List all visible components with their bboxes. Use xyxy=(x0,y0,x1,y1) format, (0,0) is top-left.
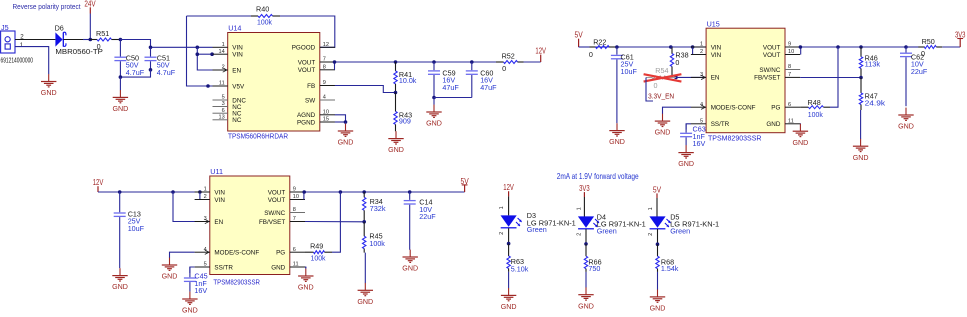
capacitor C61 xyxy=(611,47,638,123)
svg-text:GND: GND xyxy=(162,272,178,281)
wire 12V rail to U11 xyxy=(98,191,213,193)
svg-text:Green: Green xyxy=(597,227,617,236)
svg-text:8: 8 xyxy=(788,64,791,70)
svg-text:Green: Green xyxy=(670,227,690,236)
svg-text:TPSM82903SSR: TPSM82903SSR xyxy=(708,133,762,142)
wire to net 3.3V_EN xyxy=(646,78,653,102)
svg-text:V5V: V5V xyxy=(232,83,245,90)
DNP cross over R54 xyxy=(644,74,682,81)
LED D5 xyxy=(648,207,719,236)
ground xyxy=(113,77,129,113)
wire 3V3 to D4 anode xyxy=(583,197,585,217)
svg-text:GND: GND xyxy=(678,159,694,168)
svg-text:4.7uF: 4.7uF xyxy=(126,68,145,77)
ground xyxy=(298,267,314,292)
resistor R54 (DNP) xyxy=(646,66,676,90)
junction R51/C50/bus xyxy=(119,38,123,42)
svg-text:NC: NC xyxy=(232,117,242,124)
junction C62 top xyxy=(904,45,908,49)
ground xyxy=(182,292,198,315)
svg-text:GND: GND xyxy=(298,283,314,292)
junction R49 riser xyxy=(339,190,343,194)
wire SS/TR to C45 xyxy=(190,267,195,273)
junction C14 top xyxy=(408,190,412,194)
svg-text:15: 15 xyxy=(323,117,329,123)
svg-text:GND: GND xyxy=(609,137,625,146)
ground xyxy=(793,124,809,147)
ground xyxy=(655,114,671,137)
svg-text:PG: PG xyxy=(771,105,780,112)
ground xyxy=(388,131,404,154)
svg-text:VOUT: VOUT xyxy=(298,67,316,74)
svg-text:2: 2 xyxy=(648,233,654,236)
ground xyxy=(41,74,57,97)
svg-text:12V: 12V xyxy=(535,47,546,56)
junction pin14 drop xyxy=(196,52,200,56)
svg-text:12V: 12V xyxy=(93,178,104,187)
svg-text:6: 6 xyxy=(788,102,791,108)
wire bus to U14 VIN xyxy=(120,40,212,48)
svg-text:GND: GND xyxy=(271,264,285,271)
svg-text:PG: PG xyxy=(276,250,285,257)
svg-text:VIN: VIN xyxy=(711,44,722,51)
svg-text:0: 0 xyxy=(589,50,593,59)
capacitor C59 xyxy=(428,62,459,98)
svg-text:FB/VSET: FB/VSET xyxy=(754,75,780,82)
wire U15 VOUT bus xyxy=(800,46,925,48)
svg-text:1: 1 xyxy=(20,42,24,49)
power flag 12V xyxy=(93,178,104,192)
svg-text:1: 1 xyxy=(204,187,207,193)
svg-text:0: 0 xyxy=(97,42,101,51)
junction D5/R68 xyxy=(656,242,660,246)
svg-text:Green: Green xyxy=(527,225,547,234)
power flag 5V xyxy=(461,177,470,192)
svg-text:FB: FB xyxy=(307,83,315,90)
wire AGND/PGND to ground xyxy=(335,115,346,122)
svg-text:D6: D6 xyxy=(55,23,64,32)
svg-text:MODE/S-CONF: MODE/S-CONF xyxy=(214,250,259,257)
svg-text:GND: GND xyxy=(112,282,128,291)
wire VOUT pin10 riser xyxy=(800,47,802,55)
LED D3 xyxy=(499,206,576,235)
svg-text:R51: R51 xyxy=(96,29,109,38)
svg-text:U14: U14 xyxy=(228,24,241,33)
junction R34 top xyxy=(362,190,366,194)
svg-text:732k: 732k xyxy=(370,204,386,213)
resistor R51 xyxy=(90,29,120,51)
svg-text:13: 13 xyxy=(218,115,224,121)
svg-text:EN: EN xyxy=(711,75,720,82)
svg-text:VOUT: VOUT xyxy=(298,59,316,66)
svg-text:SW: SW xyxy=(305,97,315,104)
svg-text:10.0k: 10.0k xyxy=(399,76,417,85)
junction D3/R63 xyxy=(507,242,511,246)
wire J5 pin1 to ground xyxy=(15,47,49,75)
svg-text:8: 8 xyxy=(323,65,326,71)
svg-text:0: 0 xyxy=(654,81,658,90)
ground xyxy=(853,110,869,162)
wire EN drop xyxy=(173,192,213,222)
capacitor C63 xyxy=(680,124,706,148)
resistor R52 xyxy=(496,52,541,73)
svg-text:1: 1 xyxy=(222,42,225,48)
svg-text:12: 12 xyxy=(323,42,329,48)
power flag 3V3 xyxy=(955,30,966,47)
wire R48 riser to VOUT xyxy=(830,47,838,107)
svg-text:10uF: 10uF xyxy=(128,224,145,233)
svg-text:11: 11 xyxy=(219,81,225,87)
svg-text:R54: R54 xyxy=(655,66,668,75)
svg-text:10: 10 xyxy=(293,194,299,200)
ground xyxy=(338,122,354,147)
wire FB/VSET to divider xyxy=(800,77,861,79)
junction C60 top xyxy=(470,60,474,64)
power flag 12V xyxy=(535,47,546,63)
svg-text:5: 5 xyxy=(204,262,207,268)
ground xyxy=(357,253,373,306)
svg-text:7: 7 xyxy=(788,72,791,78)
junction C59 top xyxy=(432,60,436,64)
svg-text:5: 5 xyxy=(222,95,225,101)
svg-text:R49: R49 xyxy=(310,241,323,250)
wire MODE to ground xyxy=(663,107,692,114)
ground xyxy=(898,108,914,131)
wire C51/C50 bottoms xyxy=(120,70,150,77)
svg-text:7: 7 xyxy=(293,216,296,222)
junction AGND/PGND xyxy=(344,120,348,124)
svg-text:9: 9 xyxy=(323,80,326,86)
wire D5 cathode to R68 xyxy=(657,229,659,244)
wire U11 VOUT bus xyxy=(305,191,465,193)
junction R48 riser xyxy=(836,45,840,49)
wire SS/TR to C63 xyxy=(686,124,691,130)
wire 5V to D5 anode xyxy=(656,198,658,217)
resistor R49 xyxy=(305,241,332,262)
svg-text:TPSM560R6HRDAR: TPSM560R6HRDAR xyxy=(228,132,288,141)
wire D3 cathode to R63 xyxy=(508,228,510,243)
wire 12V to D3 anode xyxy=(508,196,510,215)
resistor R50 xyxy=(906,37,960,58)
resistor R34 xyxy=(363,192,387,222)
junction 24V/D6/R51 xyxy=(89,38,93,42)
svg-text:GND: GND xyxy=(793,138,809,147)
LED D4 xyxy=(577,207,646,236)
ground xyxy=(501,272,517,311)
svg-text:6: 6 xyxy=(293,247,296,253)
power flag 12V xyxy=(503,183,514,196)
svg-text:R52: R52 xyxy=(502,52,515,61)
wire 5V rail to U15 xyxy=(579,46,692,48)
svg-text:GND: GND xyxy=(113,104,129,113)
wire J5 pin2 to D6 xyxy=(15,39,55,41)
wire VOUT pin8 riser xyxy=(334,62,336,70)
ground xyxy=(112,268,128,291)
svg-text:2: 2 xyxy=(700,49,703,55)
diode D6 xyxy=(55,23,104,56)
svg-text:VOUT: VOUT xyxy=(763,52,781,59)
wire U11 GND pin to ground xyxy=(304,267,307,268)
svg-text:14: 14 xyxy=(218,49,224,55)
connector J5 xyxy=(1,23,34,64)
svg-text:3.3V_EN: 3.3V_EN xyxy=(648,91,674,100)
wire U15 GND pin to ground xyxy=(799,123,801,126)
svg-text:1.54k: 1.54k xyxy=(661,264,679,273)
junction R41/R43/FB xyxy=(394,91,398,95)
svg-text:0: 0 xyxy=(502,64,506,73)
svg-text:GND: GND xyxy=(578,301,594,310)
wire VOUT pin10 riser xyxy=(303,192,305,200)
junction EN drop xyxy=(171,190,175,194)
junction C51 bottom xyxy=(149,68,153,72)
svg-text:5V: 5V xyxy=(653,185,662,194)
resistor R45 xyxy=(363,222,386,253)
junction VIN pins xyxy=(198,190,202,194)
power flag 5V xyxy=(653,185,662,198)
svg-text:SS/TR: SS/TR xyxy=(214,264,233,271)
svg-text:GND: GND xyxy=(898,122,914,131)
svg-text:7: 7 xyxy=(323,57,326,63)
wire U14 VOUT bus xyxy=(335,61,496,63)
svg-text:GND: GND xyxy=(655,128,671,137)
svg-text:1: 1 xyxy=(499,206,505,209)
svg-text:GND: GND xyxy=(650,304,666,313)
svg-text:J5: J5 xyxy=(1,23,9,32)
svg-text:VIN: VIN xyxy=(214,189,225,196)
power flag 24V xyxy=(84,0,96,40)
svg-text:GND: GND xyxy=(182,306,198,315)
svg-text:4: 4 xyxy=(323,95,326,101)
wire VIN pin1/pin2 drop xyxy=(693,47,707,55)
junction R46/R47/FB xyxy=(859,76,863,80)
capacitor C51 xyxy=(145,47,176,77)
capacitor C45 xyxy=(184,267,208,295)
svg-text:9: 9 xyxy=(788,42,791,48)
svg-text:3V3: 3V3 xyxy=(579,184,590,193)
svg-text:VIN: VIN xyxy=(232,52,243,59)
svg-text:GND: GND xyxy=(402,264,418,273)
ground xyxy=(609,123,625,146)
svg-text:0: 0 xyxy=(921,49,925,58)
resistor R48 xyxy=(800,98,830,119)
svg-text:1: 1 xyxy=(648,207,654,210)
wire MODE to ground xyxy=(170,252,195,258)
svg-text:GND: GND xyxy=(766,121,780,128)
junction C13 top xyxy=(118,190,122,194)
junction R38 top xyxy=(669,45,673,49)
svg-text:5.10k: 5.10k xyxy=(511,264,529,273)
svg-text:SS/TR: SS/TR xyxy=(711,121,730,128)
svg-text:Reverse polarity protect: Reverse polarity protect xyxy=(13,2,82,11)
resistor R41 xyxy=(394,62,417,93)
junction R41 top xyxy=(394,60,398,64)
svg-text:EN: EN xyxy=(214,219,223,226)
svg-text:24.9k: 24.9k xyxy=(865,99,886,108)
svg-text:22uF: 22uF xyxy=(419,212,436,221)
junction D4/R66 xyxy=(584,242,588,246)
junction pin9/pin10 xyxy=(302,190,306,194)
junction VIN pin1 xyxy=(196,46,200,50)
wire D4 cathode to R66 xyxy=(585,229,587,244)
ground xyxy=(678,145,694,168)
resistor R66 xyxy=(584,244,601,273)
svg-text:10: 10 xyxy=(323,110,329,116)
svg-text:6: 6 xyxy=(222,108,225,114)
svg-text:GND: GND xyxy=(338,138,354,147)
svg-text:AGND: AGND xyxy=(297,112,316,119)
capacitor C50 xyxy=(114,40,144,78)
resistor R43 xyxy=(394,93,412,132)
capacitor C13 xyxy=(114,192,145,268)
svg-text:909: 909 xyxy=(399,116,411,125)
svg-text:SW/NC: SW/NC xyxy=(264,210,285,217)
svg-text:10uF: 10uF xyxy=(621,67,638,76)
svg-text:GND: GND xyxy=(501,302,517,311)
svg-text:U15: U15 xyxy=(707,19,720,28)
svg-text:MODE/S-CONF: MODE/S-CONF xyxy=(711,105,756,112)
capacitor C62 xyxy=(900,47,928,106)
svg-text:GND: GND xyxy=(357,297,373,306)
svg-text:2: 2 xyxy=(204,194,207,200)
svg-text:2: 2 xyxy=(577,233,583,236)
svg-text:100k: 100k xyxy=(808,110,823,119)
svg-text:8: 8 xyxy=(293,207,296,213)
svg-text:100k: 100k xyxy=(257,17,272,26)
junction pin9/pin10 xyxy=(799,45,803,49)
junction C61 top xyxy=(615,45,619,49)
svg-text:9: 9 xyxy=(293,187,296,193)
wire V5V to R40 left xyxy=(187,16,213,86)
svg-text:PGND: PGND xyxy=(297,119,316,126)
svg-text:VOUT: VOUT xyxy=(763,44,781,51)
resistor R46 xyxy=(859,47,880,78)
IC U11 xyxy=(195,167,305,286)
svg-text:11: 11 xyxy=(293,262,299,268)
ground xyxy=(650,272,666,313)
junction C50 bottom xyxy=(119,75,123,79)
svg-text:VOUT: VOUT xyxy=(268,197,286,204)
svg-text:10: 10 xyxy=(788,49,794,55)
svg-text:22uF: 22uF xyxy=(911,67,928,76)
wire R40 to PGOOD xyxy=(280,16,335,47)
wire D6 to R51 xyxy=(63,39,83,41)
junction EN/R38/R54 xyxy=(674,76,678,80)
ground xyxy=(578,272,594,310)
junction C59/C60 bottom xyxy=(432,96,436,100)
svg-text:3: 3 xyxy=(222,101,225,107)
capacitor C60 xyxy=(466,62,497,98)
junction VIN pins xyxy=(691,45,695,49)
junction R46 top xyxy=(859,45,863,49)
svg-text:1: 1 xyxy=(700,42,703,48)
wire FB/VSET to divider xyxy=(305,221,364,223)
svg-text:4.7uF: 4.7uF xyxy=(157,68,176,77)
resistor R22 xyxy=(579,38,617,59)
resistor R47 xyxy=(859,78,885,111)
svg-text:100k: 100k xyxy=(311,254,326,263)
ground xyxy=(162,258,178,281)
power flag 3V3 xyxy=(579,184,590,197)
svg-text:EN: EN xyxy=(232,67,241,74)
svg-text:5V: 5V xyxy=(575,31,584,40)
ground xyxy=(402,250,418,273)
svg-text:5: 5 xyxy=(700,119,703,125)
svg-text:113k: 113k xyxy=(865,59,881,68)
svg-text:100k: 100k xyxy=(369,239,385,248)
svg-text:SW/NC: SW/NC xyxy=(759,67,780,74)
resistor R38 xyxy=(670,47,688,77)
capacitor C14 xyxy=(404,192,437,250)
resistor R68 xyxy=(656,244,679,273)
svg-text:12V: 12V xyxy=(503,183,514,192)
svg-text:GND: GND xyxy=(853,153,869,162)
resistor R63 xyxy=(507,244,529,274)
wire FB to divider xyxy=(335,86,396,93)
svg-text:24V: 24V xyxy=(84,0,96,9)
svg-text:47uF: 47uF xyxy=(442,83,459,92)
wire EN xyxy=(676,76,706,78)
svg-text:16V: 16V xyxy=(693,139,706,148)
svg-text:GND: GND xyxy=(426,119,442,128)
svg-text:16V: 16V xyxy=(194,286,207,295)
svg-text:2mA at 1.9V forward voltage: 2mA at 1.9V forward voltage xyxy=(557,171,639,181)
wire R49 riser to VOUT xyxy=(332,192,340,252)
svg-text:11: 11 xyxy=(788,119,794,125)
svg-text:VIN: VIN xyxy=(214,197,225,204)
svg-text:47uF: 47uF xyxy=(480,83,497,92)
IC U14 xyxy=(213,24,336,141)
svg-text:GND: GND xyxy=(41,88,57,97)
wire R38 top jog xyxy=(671,46,672,48)
ground xyxy=(426,98,442,128)
svg-text:GND: GND xyxy=(388,145,404,154)
junction pin14 stub xyxy=(210,52,214,56)
svg-text:691214000000: 691214000000 xyxy=(1,56,34,65)
svg-text:TPSM82903SSR: TPSM82903SSR xyxy=(213,277,260,286)
svg-text:FB/VSET: FB/VSET xyxy=(259,219,285,226)
junction V5V stub xyxy=(206,84,210,88)
svg-text:R22: R22 xyxy=(593,38,606,47)
wire C60 bottom to C59 xyxy=(434,97,472,99)
svg-text:1: 1 xyxy=(577,207,583,210)
svg-text:U11: U11 xyxy=(210,167,223,176)
resistor R40 xyxy=(187,4,281,26)
junction R34/R45/FB xyxy=(362,220,366,224)
svg-text:R48: R48 xyxy=(808,98,821,107)
wire VIN pin2 drop xyxy=(200,192,213,200)
svg-text:PGOOD: PGOOD xyxy=(292,45,316,52)
svg-text:R40: R40 xyxy=(256,4,269,13)
svg-text:VOUT: VOUT xyxy=(268,189,286,196)
power flag 5V xyxy=(575,31,584,47)
junction pin7/pin8 xyxy=(333,60,337,64)
svg-text:750: 750 xyxy=(588,264,600,273)
svg-text:0: 0 xyxy=(675,58,679,67)
wire VIN pin1 to pin14 and EN xyxy=(197,47,212,70)
svg-text:VIN: VIN xyxy=(711,52,722,59)
svg-text:R50: R50 xyxy=(922,37,935,46)
svg-text:2: 2 xyxy=(499,232,505,235)
junction C51 top xyxy=(149,46,153,50)
IC U15 xyxy=(691,19,800,142)
